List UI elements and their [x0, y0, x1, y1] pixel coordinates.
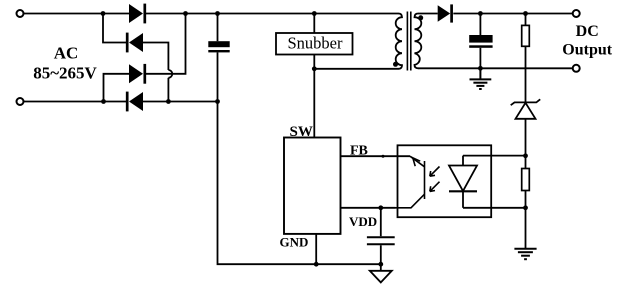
transformer core	[407, 12, 410, 71]
wire DC+ rail	[453, 13, 572, 15]
transformer secondary winding	[415, 14, 422, 69]
optocoupler LED	[449, 156, 477, 208]
wire secondary top to D5	[418, 13, 438, 15]
node D2-bottom junction	[166, 99, 171, 104]
wire LED cathode to R2 node	[463, 207, 526, 209]
svg-text:GND: GND	[280, 235, 309, 250]
node D3-top junction	[183, 11, 188, 16]
optocoupler phototransistor	[396, 156, 425, 208]
transformer T1 primary winding	[396, 14, 402, 69]
node D3-bottom junction	[101, 99, 106, 104]
node GND return junction	[314, 262, 319, 267]
node FB small dot	[382, 155, 385, 158]
terminal DC-	[573, 65, 580, 72]
wire earth stub	[380, 264, 382, 271]
svg-text:AC: AC	[54, 44, 79, 63]
node R1 top junction	[523, 11, 528, 16]
wire top rail from D1 to transformer	[146, 13, 399, 15]
wire DC- return to IC GND	[218, 102, 381, 265]
node C1 top junction	[215, 11, 220, 16]
wire D2 to vertical drop	[143, 43, 168, 71]
terminal DC+	[573, 10, 580, 17]
terminal AC top	[17, 10, 24, 17]
node earth junction	[378, 262, 383, 267]
wire LED anode to zener node	[463, 155, 526, 157]
wire D3 left branch	[104, 74, 130, 102]
diode D3 bridge (points right)	[129, 64, 145, 84]
svg-text:SW: SW	[290, 124, 313, 140]
node C1 bottom junction	[215, 99, 220, 104]
wire secondary bottom rail	[418, 67, 572, 69]
wire D2 branch vertical	[103, 14, 126, 43]
node zener-opto junction	[523, 153, 528, 158]
wire bottom AC rail left	[24, 101, 126, 103]
svg-text:85~265V: 85~265V	[33, 64, 97, 83]
wire drop to bottom rail	[167, 78, 169, 102]
svg-text:Snubber: Snubber	[288, 34, 344, 53]
node C3 top junction	[478, 11, 483, 16]
optocoupler light arrows	[430, 167, 440, 192]
svg-text:Output: Output	[562, 42, 612, 59]
node snubber top junction	[312, 11, 317, 16]
wire top AC rail	[24, 13, 129, 15]
wire VDD row	[341, 207, 396, 209]
wire FB to optocoupler	[341, 155, 411, 157]
transformer primary phase dot	[393, 62, 398, 67]
node R2 bottom junction	[523, 205, 528, 210]
wire bottom rail right of D4	[143, 101, 218, 103]
wire hop over D3 row	[168, 70, 172, 78]
transformer secondary phase dot	[418, 15, 423, 20]
node VDD junction	[378, 205, 383, 210]
resistor R2	[522, 156, 530, 208]
terminal AC bottom	[17, 98, 24, 105]
optocoupler U2 box	[398, 145, 492, 217]
diode D5 output rectifier	[438, 4, 452, 22]
resistor R1	[522, 14, 530, 103]
IC controller box U1	[284, 138, 341, 234]
ground secondary under R2	[514, 249, 536, 260]
diode D2 bridge (points left)	[127, 33, 143, 53]
zener diode D6	[511, 99, 541, 156]
wire snubber top stub	[313, 14, 315, 34]
wire R2 to ground	[525, 208, 527, 249]
wire D3 to top rail	[146, 14, 186, 74]
diode D4 bridge bottom (points left)	[127, 92, 143, 112]
ground triangle VDD	[370, 271, 392, 283]
svg-text:DC: DC	[576, 23, 599, 40]
svg-text:VDD: VDD	[349, 214, 377, 229]
wire IC GND drop	[315, 234, 317, 264]
ground secondary under C3	[470, 68, 492, 89]
wire primary return	[314, 68, 398, 70]
node C3 bottom junction	[478, 66, 483, 71]
node top-left junction	[101, 11, 106, 16]
capacitor C3 output	[469, 14, 492, 69]
capacitor C2 VDD	[367, 208, 395, 264]
snubber box	[276, 33, 353, 55]
node snubber bottom junction	[312, 66, 317, 71]
diode D1 bridge top	[129, 4, 145, 24]
wire snubber bottom to SW	[313, 55, 315, 138]
capacitor C1 bulk	[208, 14, 229, 102]
